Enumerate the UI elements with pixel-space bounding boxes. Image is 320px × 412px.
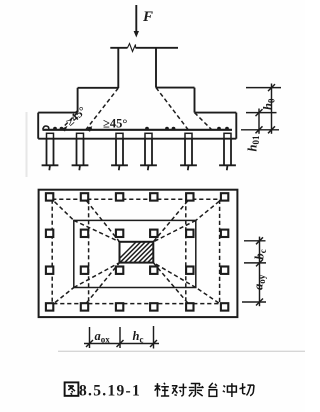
dashed diagonal bottom-left xyxy=(50,288,74,307)
svg-text:h01: h01 xyxy=(246,135,262,151)
short diagonal tail at top second pile right xyxy=(153,201,188,242)
cap outline plan xyxy=(39,190,238,317)
dashed vertical line through second pile column right xyxy=(185,199,187,303)
pile 3 section xyxy=(111,133,128,170)
short diagonal tail at top second pile left xyxy=(87,201,120,242)
svg-text:≥45°: ≥45° xyxy=(103,117,127,131)
punching cone dashed line from column bottom-right xyxy=(156,88,188,130)
force arrow F xyxy=(134,5,139,38)
arrowhead at left column cone end xyxy=(86,126,92,132)
svg-text:aoy: aoy xyxy=(252,274,268,290)
slab right edge xyxy=(235,113,237,139)
caption 台 glyph xyxy=(209,383,217,397)
column left edge xyxy=(117,48,119,88)
slab top surface xyxy=(38,112,236,114)
pile squares plan: rows at 196.9 233.3 270.2 306.9; cols 49.6 84.5 119.6 153.8 189.8 224.6 xyxy=(46,193,228,310)
svg-text:8.5.19-1: 8.5.19-1 xyxy=(79,383,141,400)
caption 冲 glyph xyxy=(223,383,237,397)
step left edge xyxy=(77,88,79,113)
dashed vertical line through second pile column left xyxy=(88,199,90,303)
dashed diagonal top-right xyxy=(196,197,225,221)
pile 2 section xyxy=(72,133,89,170)
caption 柱 glyph xyxy=(155,383,170,397)
section dimension h0 and h01 xyxy=(241,84,281,134)
step right edge xyxy=(194,88,196,113)
dashed diagonal top-left: pile to step corner xyxy=(50,197,74,221)
dashed diagonal step corner to column corner top-right xyxy=(153,220,196,241)
svg-text:≥45°: ≥45° xyxy=(64,105,89,129)
caption 图 glyph xyxy=(65,382,79,395)
punching cone dashed line from column bottom-left xyxy=(86,88,118,130)
dashed critical perimeter rect (outer pile ring) xyxy=(52,199,219,303)
punching cone dashed line from step bottom-left xyxy=(61,113,78,130)
dashed diagonal step corner to column corner bottom-right xyxy=(153,263,196,288)
scan artifact horizontal gray xyxy=(58,350,305,352)
rebar dots xyxy=(53,127,229,131)
caption 承 glyph xyxy=(189,383,204,396)
caption 切 glyph xyxy=(239,383,254,396)
dashed diagonal step corner to column corner bottom-left xyxy=(74,263,120,288)
plan bottom dimension a_ox and h_c xyxy=(84,326,159,349)
svg-text:h0: h0 xyxy=(261,98,277,110)
rebar line xyxy=(43,129,233,131)
pile 5 section xyxy=(180,133,197,170)
pile 6 section xyxy=(219,133,236,170)
punching cone dashed line from step bottom-right xyxy=(195,113,212,130)
svg-text:F: F xyxy=(142,9,153,25)
caption 对 glyph xyxy=(172,383,187,396)
scan artifact vertical gray xyxy=(26,112,28,177)
column top line with break mark xyxy=(110,44,178,52)
slab left edge xyxy=(37,113,39,139)
arrowhead at left step cone end xyxy=(61,126,68,132)
slab bottom xyxy=(38,138,236,140)
pile 1 section xyxy=(42,133,59,170)
rebar hook left end xyxy=(43,126,49,129)
svg-text:hc: hc xyxy=(133,329,144,345)
step outline plan xyxy=(74,220,196,287)
dashed diagonal bottom-right xyxy=(196,288,225,307)
pile 4 section xyxy=(140,133,157,170)
dashed diagonal step corner to column corner top-left xyxy=(74,220,120,241)
svg-text:aox: aox xyxy=(95,329,111,345)
svg-text:bc: bc xyxy=(253,249,269,259)
plan right dimension b_c and a_oy xyxy=(242,237,266,307)
column right edge xyxy=(155,48,157,88)
column plan hatched xyxy=(112,240,184,283)
step top surface xyxy=(78,87,195,89)
short diagonal tail at bottom second pile left xyxy=(87,263,120,303)
short diagonal tail at bottom second pile right xyxy=(153,263,188,303)
